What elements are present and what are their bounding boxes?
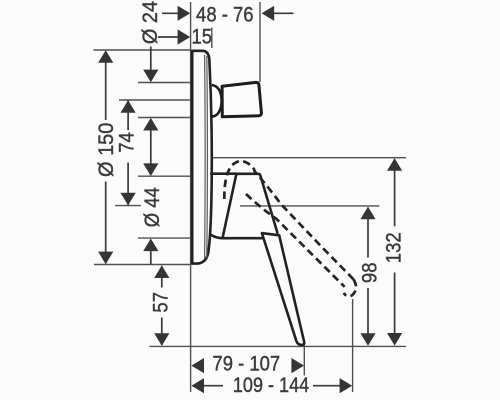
extension line knob bottom: [138, 117, 191, 119]
diverter knob: [222, 82, 261, 116]
label 132: [383, 232, 406, 263]
reference line plate front: [211, 28, 213, 49]
handle boss: [223, 174, 278, 238]
reference line raised lever tip: [352, 299, 354, 392]
label 48-76: [196, 4, 254, 27]
handle sleeve top edge: [211, 172, 236, 175]
extension line handle boss top: [138, 175, 191, 177]
dimension line D44: [143, 163, 158, 264]
svg-text:109 - 144: 109 - 144: [233, 374, 309, 398]
reference line lever tip: [303, 344, 305, 376]
knob adapter collar: [212, 85, 222, 117]
dimension 15 arrow: [158, 29, 190, 44]
handle lever lowered: [262, 233, 304, 345]
dimension line 98: [360, 207, 375, 346]
svg-text:57: 57: [149, 292, 172, 313]
plate face contour outer: [206, 56, 209, 258]
plate face contour inner: [204, 55, 207, 259]
svg-text:132: 132: [383, 232, 406, 263]
baseline wall projection: [150, 345, 407, 347]
svg-text:98: 98: [359, 263, 382, 284]
raised lever dashed tip: [344, 279, 356, 296]
escutcheon plate side view: [192, 51, 212, 264]
svg-text:15: 15: [192, 26, 213, 49]
extension line plate top: [94, 49, 191, 51]
label 74: [116, 132, 139, 153]
dimension line 57: [154, 265, 169, 346]
extension line knob top: [138, 82, 191, 84]
dimension line D150: [98, 50, 113, 264]
label 109-144: [233, 374, 309, 398]
raised lever dashed lower edge: [246, 194, 345, 287]
extension line knob axis: [119, 99, 191, 101]
raised handle dashed dome and upper lever edge: [224, 161, 353, 279]
dimension line 132: [387, 158, 402, 345]
svg-text:48 - 76: 48 - 76: [196, 4, 254, 27]
svg-text:Ø 150: Ø 150: [94, 123, 118, 177]
label 15: [192, 26, 213, 49]
label 79-107: [212, 353, 280, 376]
label D44: [141, 187, 164, 227]
dimension 79-107: [191, 358, 304, 373]
label D150: [94, 123, 118, 177]
dimension 48-76: [162, 6, 294, 21]
reference line knob front: [259, 2, 261, 82]
dimension 109-144: [191, 378, 352, 393]
svg-text:74: 74: [116, 132, 139, 153]
extension line plate bottom: [94, 264, 191, 266]
extension line handle axis right: [240, 205, 379, 207]
label 57: [149, 292, 172, 313]
extension line handle axis left: [115, 205, 141, 207]
wall reference line: [190, 2, 192, 392]
handle sleeve bottom edge: [211, 235, 263, 239]
dimension line D24: [143, 47, 158, 164]
svg-text:79 - 107: 79 - 107: [212, 353, 280, 376]
extension line sleeve bottom: [138, 237, 191, 239]
extension line raised handle top: [213, 157, 407, 159]
dimension line 74: [121, 100, 136, 205]
svg-text:Ø 44: Ø 44: [141, 187, 164, 227]
label 98: [359, 263, 382, 284]
label D24: [139, 1, 163, 44]
